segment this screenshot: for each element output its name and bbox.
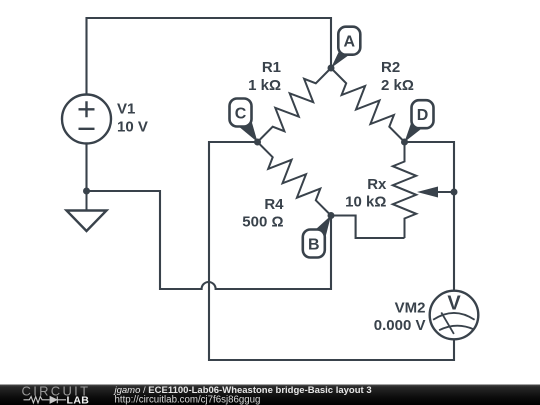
svg-text:10 V: 10 V (117, 119, 148, 136)
wire V1- to ground junction (85, 144, 87, 192)
svg-text:Rx: Rx (367, 176, 387, 193)
voltmeter VM2 (374, 291, 479, 340)
wire ground junction to B (bottom rail with hop) (87, 191, 332, 289)
svg-text:500 Ω: 500 Ω (242, 214, 283, 231)
junction dot node C (254, 139, 261, 146)
wire top rail V1+ to node A (87, 18, 332, 95)
svg-text:B: B (308, 236, 320, 253)
svg-text:V: V (447, 293, 461, 315)
wire Rx bottom to B (331, 216, 405, 239)
voltage source V1 (62, 95, 148, 144)
svg-text:R4: R4 (264, 196, 284, 213)
wire D to VM2 top (405, 142, 455, 291)
svg-text:V1: V1 (117, 101, 135, 118)
svg-text:2 kΩ: 2 kΩ (381, 77, 414, 94)
svg-text:C: C (235, 105, 247, 122)
potentiometer Rx (10 kOhm, D to B) (345, 142, 416, 238)
resistor R1 (1 kOhm, C to A) (248, 59, 331, 142)
node A label (331, 27, 360, 68)
svg-text:A: A (344, 34, 356, 51)
svg-text:VM2: VM2 (395, 300, 426, 317)
junction dot ground (83, 188, 90, 195)
ground (67, 191, 107, 231)
wire C to VM2 bottom (209, 142, 454, 360)
svg-text:10 kΩ: 10 kΩ (345, 194, 386, 211)
svg-text:0.000 V: 0.000 V (374, 317, 426, 334)
footer caption (113, 385, 372, 405)
svg-text:D: D (417, 107, 429, 124)
node B label (303, 216, 331, 258)
node D label (405, 100, 434, 142)
wiper arrow of Rx from right rail (417, 187, 454, 198)
svg-text:R1: R1 (262, 59, 281, 76)
footer bar (0, 385, 540, 405)
resistor R2 (2 kOhm, A to D) (331, 59, 414, 142)
resistor R4 (500 Ohm, C to B) (242, 142, 331, 231)
junction dot node B (328, 212, 335, 219)
CircuitLab logo (22, 383, 91, 405)
svg-text:LAB: LAB (67, 394, 90, 405)
svg-text:R2: R2 (381, 59, 400, 76)
svg-text:1 kΩ: 1 kΩ (248, 77, 281, 94)
node C label (230, 99, 258, 143)
junction dot wiper (451, 189, 458, 196)
junction dot node A (328, 65, 335, 72)
svg-text:http://circuitlab.com/cj7f6sj8: http://circuitlab.com/cj7f6sj86ggug (115, 394, 261, 405)
junction dot node D (401, 139, 408, 146)
